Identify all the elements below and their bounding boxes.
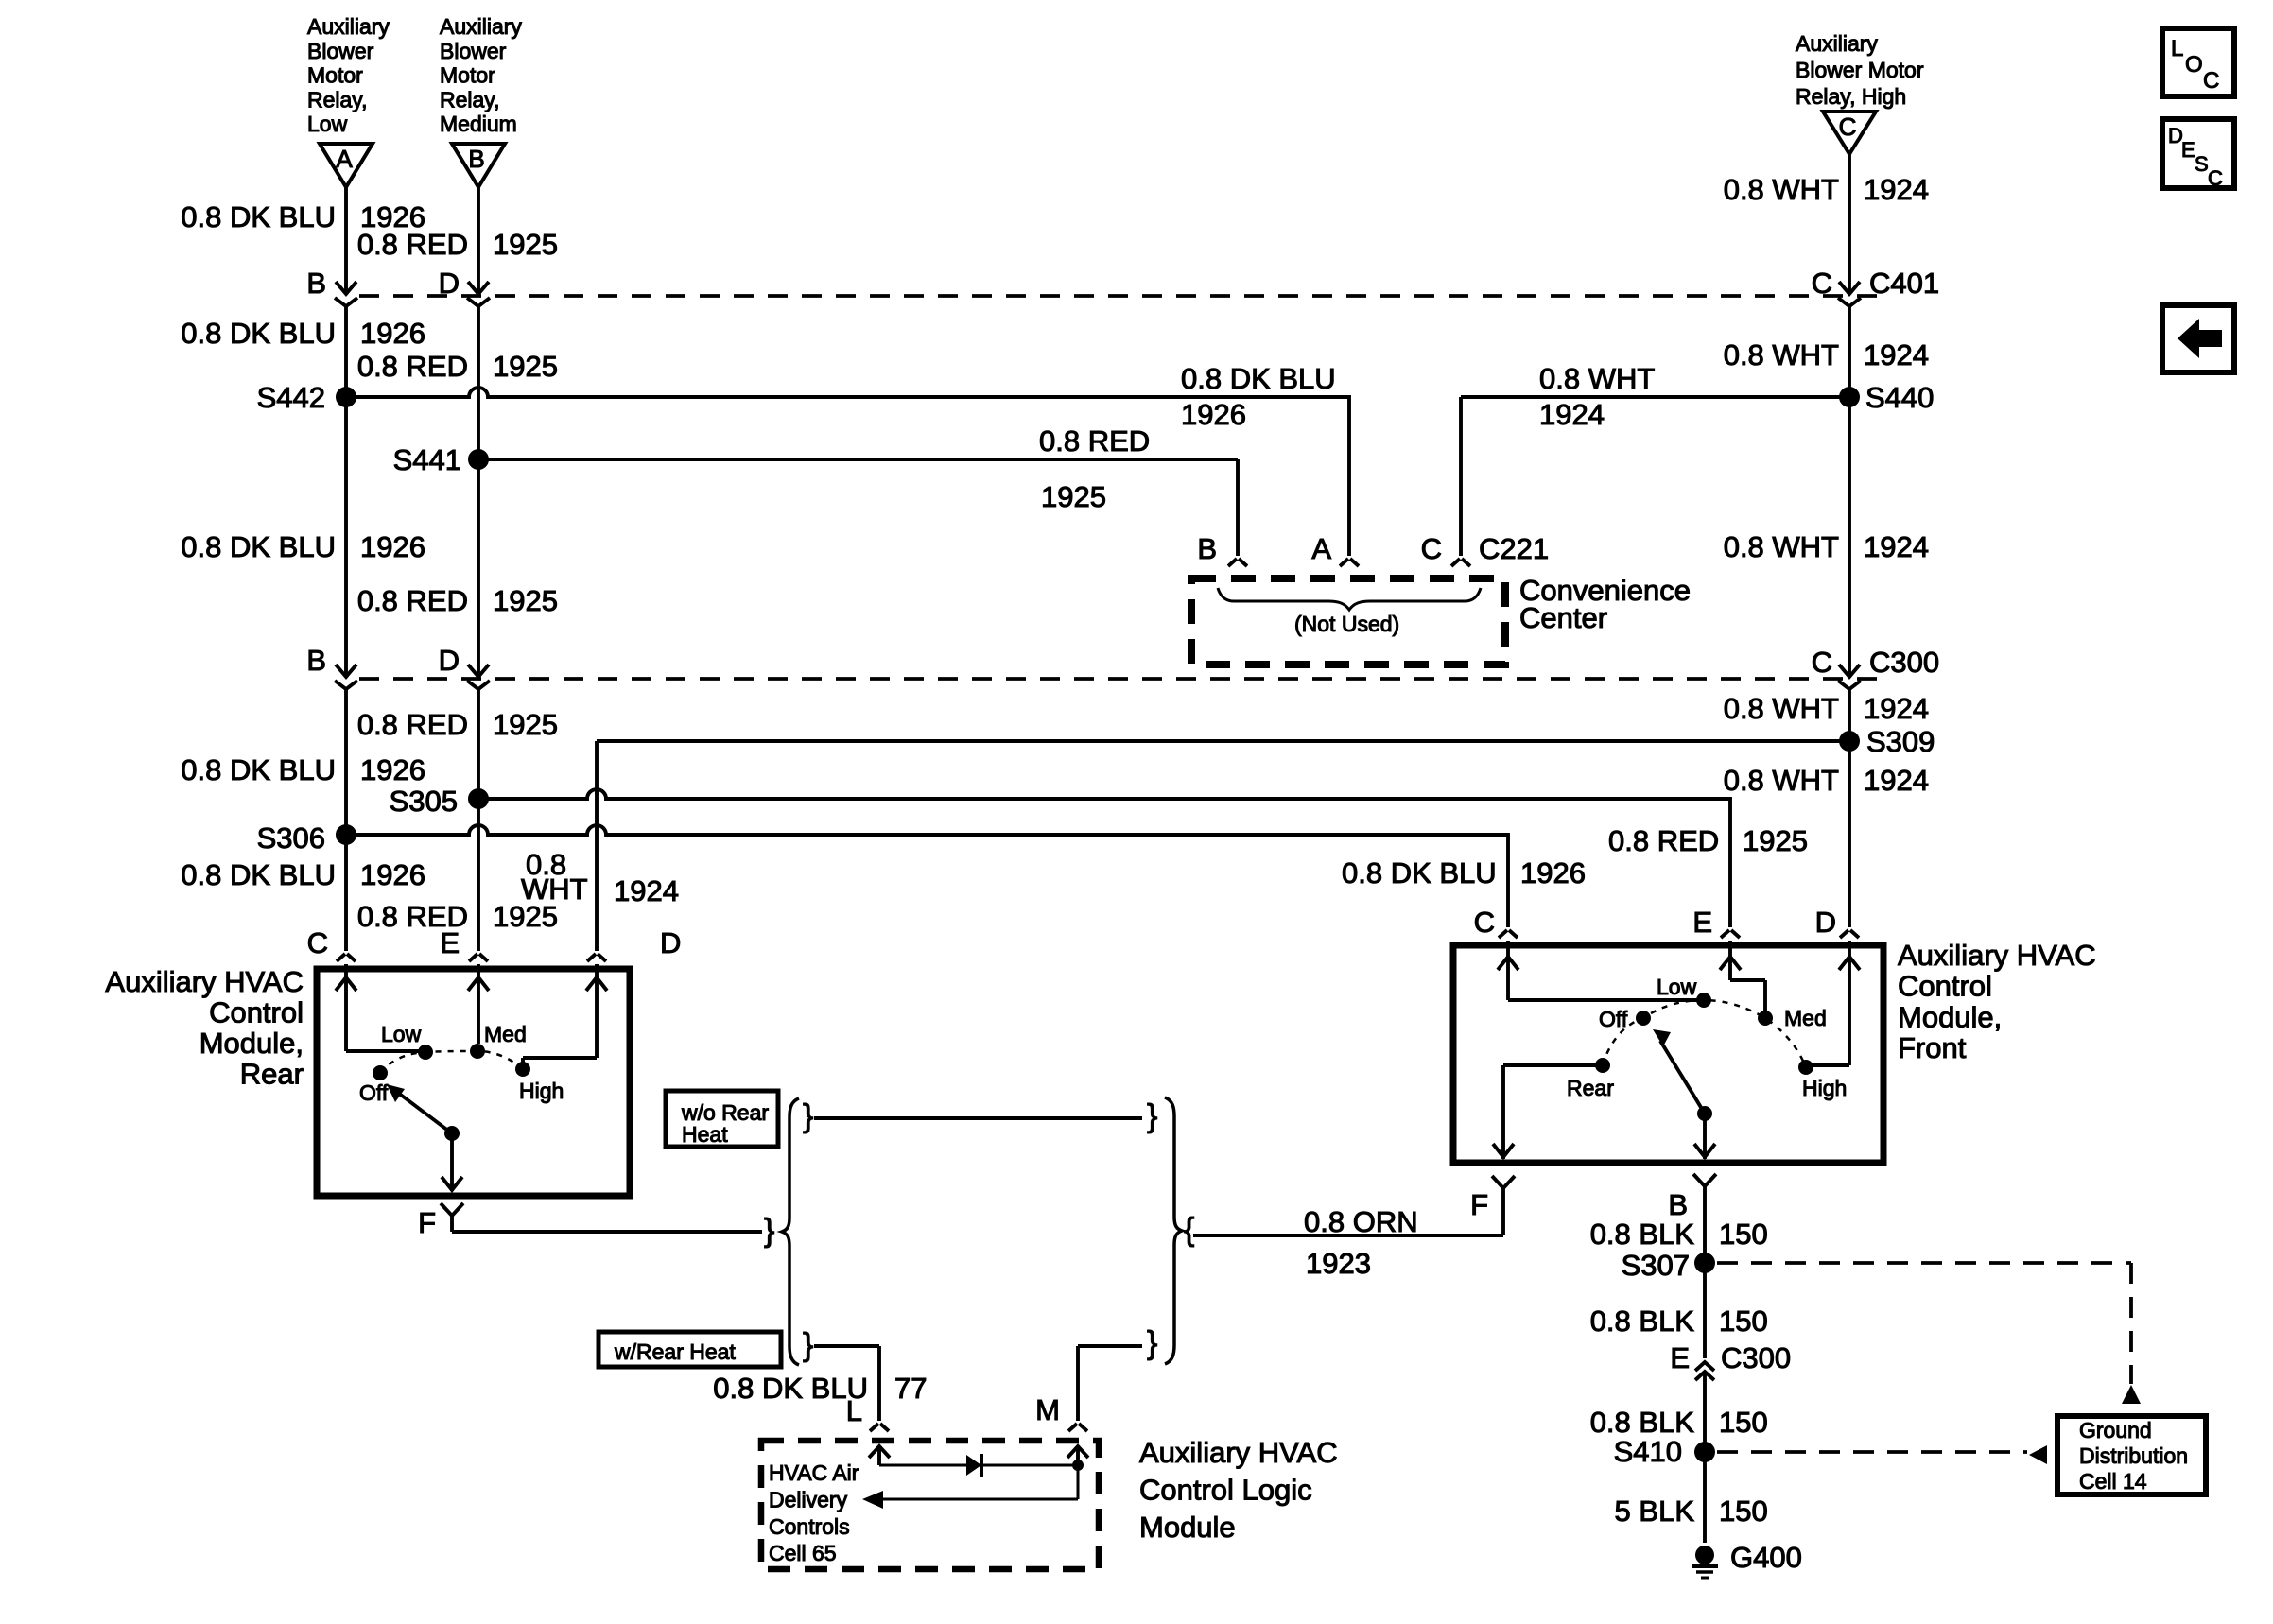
svg-text:Distribution: Distribution: [2079, 1443, 2188, 1468]
svg-text:0.8 WHT: 0.8 WHT: [1724, 530, 1839, 563]
svg-text:Low: Low: [1657, 975, 1697, 999]
svg-text:Auxiliary HVAC: Auxiliary HVAC: [1898, 939, 2096, 972]
svg-text:Auxiliary HVAC: Auxiliary HVAC: [105, 965, 304, 998]
svg-text:{: {: [1184, 1212, 1194, 1248]
svg-text:1926: 1926: [360, 317, 425, 350]
svg-text:0.8 DK BLU: 0.8 DK BLU: [181, 753, 336, 786]
svg-text:C: C: [1839, 112, 1857, 141]
svg-text:F: F: [418, 1206, 436, 1239]
svg-text:Control: Control: [209, 996, 304, 1029]
svg-text:0.8 BLK: 0.8 BLK: [1590, 1304, 1695, 1338]
svg-text:1924: 1924: [1864, 530, 1929, 563]
svg-text:0.8 WHT: 0.8 WHT: [1724, 338, 1839, 371]
svg-text:S307: S307: [1622, 1249, 1690, 1282]
svg-text:1924: 1924: [1864, 173, 1929, 206]
svg-text:F: F: [1470, 1188, 1488, 1221]
svg-text:1924: 1924: [1864, 338, 1929, 371]
svg-text:0.8 WHT: 0.8 WHT: [1724, 692, 1839, 725]
svg-text:1926: 1926: [1520, 856, 1586, 890]
svg-text:77: 77: [894, 1372, 927, 1405]
svg-text:S305: S305: [390, 785, 458, 818]
svg-text:M: M: [1035, 1393, 1060, 1426]
svg-text:}: }: [1147, 1325, 1157, 1361]
svg-text:1923: 1923: [1306, 1247, 1371, 1280]
svg-text:Cell 65: Cell 65: [769, 1541, 837, 1565]
svg-text:C: C: [1812, 646, 1832, 679]
svg-text:0.8 DK BLU: 0.8 DK BLU: [181, 858, 336, 891]
svg-text:Medium: Medium: [440, 112, 517, 136]
svg-text:0.8 DK BLU: 0.8 DK BLU: [1181, 362, 1336, 395]
svg-text:Blower Motor: Blower Motor: [1796, 58, 1924, 82]
svg-text:S410: S410: [1614, 1435, 1682, 1468]
svg-text:0.8 RED: 0.8 RED: [357, 350, 468, 383]
svg-text:1924: 1924: [614, 874, 679, 907]
svg-text:Blower: Blower: [440, 39, 507, 63]
svg-text:1925: 1925: [1743, 824, 1808, 857]
svg-text:0.8 DK BLU: 0.8 DK BLU: [1342, 856, 1497, 890]
svg-text:High: High: [1802, 1076, 1847, 1100]
svg-text:C300: C300: [1869, 646, 1939, 679]
svg-text:150: 150: [1719, 1218, 1768, 1251]
svg-text:Low: Low: [381, 1022, 422, 1046]
svg-text:S441: S441: [393, 443, 461, 476]
svg-text:1925: 1925: [493, 350, 558, 383]
svg-text:}: }: [764, 1213, 774, 1249]
svg-text:C: C: [2203, 68, 2219, 94]
svg-text:1925: 1925: [493, 708, 558, 741]
svg-text:C: C: [307, 926, 328, 959]
svg-text:C401: C401: [1869, 267, 1939, 300]
svg-text:E: E: [1692, 906, 1712, 939]
svg-text:O: O: [2185, 52, 2203, 78]
svg-text:Motor: Motor: [307, 63, 363, 88]
svg-text:0.8 RED: 0.8 RED: [357, 900, 468, 933]
svg-text:S306: S306: [257, 821, 325, 855]
svg-text:5 BLK: 5 BLK: [1615, 1494, 1695, 1528]
svg-text:Auxiliary: Auxiliary: [440, 14, 522, 39]
svg-text:0.8 WHT: 0.8 WHT: [1539, 362, 1655, 395]
svg-text:Ground: Ground: [2079, 1418, 2152, 1443]
svg-text:C221: C221: [1479, 532, 1549, 565]
svg-text:A: A: [336, 145, 353, 173]
svg-text:C: C: [1474, 906, 1495, 939]
svg-text:0.8 BLK: 0.8 BLK: [1590, 1406, 1695, 1439]
svg-text:0.8 ORN: 0.8 ORN: [1304, 1205, 1418, 1238]
svg-text:0.8 DK BLU: 0.8 DK BLU: [181, 200, 336, 233]
svg-text:}: }: [803, 1327, 813, 1363]
svg-text:S309: S309: [1866, 725, 1935, 758]
svg-text:C: C: [1421, 532, 1442, 565]
svg-text:S440: S440: [1865, 381, 1934, 414]
svg-text:Relay,: Relay,: [440, 87, 500, 112]
svg-text:D: D: [439, 644, 460, 677]
svg-text:Med: Med: [484, 1022, 527, 1046]
svg-text:Control Logic: Control Logic: [1139, 1474, 1312, 1507]
svg-text:Motor: Motor: [440, 63, 495, 88]
svg-text:Module,: Module,: [1898, 1000, 2002, 1033]
svg-text:Auxiliary: Auxiliary: [1796, 31, 1878, 56]
svg-text:0.8 WHT: 0.8 WHT: [1724, 764, 1839, 797]
svg-text:Relay, High: Relay, High: [1796, 84, 1906, 109]
svg-text:B: B: [306, 644, 326, 677]
svg-text:}: }: [803, 1098, 813, 1134]
svg-text:Control: Control: [1898, 970, 1992, 1003]
svg-text:C300: C300: [1721, 1341, 1791, 1374]
svg-text:0.8 RED: 0.8 RED: [357, 708, 468, 741]
svg-text:C: C: [1812, 267, 1832, 300]
svg-text:1925: 1925: [493, 228, 558, 261]
svg-text:0.8 DK BLU: 0.8 DK BLU: [713, 1372, 868, 1405]
svg-text:Center: Center: [1519, 601, 1607, 634]
svg-text:0.8 RED: 0.8 RED: [1039, 424, 1150, 458]
svg-text:C: C: [2208, 166, 2223, 190]
svg-text:0.8 BLK: 0.8 BLK: [1590, 1218, 1695, 1251]
svg-text:Rear: Rear: [240, 1058, 304, 1091]
svg-text:WHT: WHT: [521, 872, 588, 906]
svg-text:0.8 WHT: 0.8 WHT: [1724, 173, 1839, 206]
svg-text:E: E: [2181, 138, 2195, 162]
svg-text:Cell 14: Cell 14: [2079, 1469, 2147, 1494]
svg-text:0.8 RED: 0.8 RED: [357, 228, 468, 261]
svg-text:D: D: [439, 267, 460, 300]
svg-text:G400: G400: [1730, 1541, 1802, 1574]
svg-text:Rear: Rear: [1567, 1076, 1614, 1100]
svg-text:0.8 RED: 0.8 RED: [357, 584, 468, 617]
svg-text:1925: 1925: [493, 584, 558, 617]
svg-text:Module,: Module,: [200, 1027, 304, 1060]
svg-text:1924: 1924: [1539, 398, 1605, 431]
svg-text:B: B: [306, 267, 326, 300]
svg-text:L: L: [846, 1394, 862, 1427]
svg-text:1926: 1926: [360, 858, 425, 891]
svg-text:w/Rear Heat: w/Rear Heat: [614, 1339, 736, 1364]
svg-text:(Not Used): (Not Used): [1294, 612, 1399, 636]
svg-text:Blower: Blower: [307, 39, 374, 63]
svg-text:0.8 DK BLU: 0.8 DK BLU: [181, 317, 336, 350]
svg-text:150: 150: [1719, 1494, 1768, 1528]
svg-text:Low: Low: [307, 112, 348, 136]
svg-text:0.8 DK BLU: 0.8 DK BLU: [181, 530, 336, 563]
svg-text:Auxiliary: Auxiliary: [307, 14, 390, 39]
svg-text:Off: Off: [1599, 1007, 1628, 1031]
svg-text:B: B: [1668, 1188, 1688, 1221]
svg-text:E: E: [1670, 1341, 1690, 1374]
svg-text:HVAC Air: HVAC Air: [769, 1460, 859, 1485]
svg-text:Off: Off: [359, 1080, 389, 1105]
svg-text:Front: Front: [1898, 1031, 1967, 1064]
svg-text:Auxiliary HVAC: Auxiliary HVAC: [1139, 1436, 1338, 1469]
svg-text:1926: 1926: [1181, 398, 1246, 431]
svg-text:Relay,: Relay,: [307, 87, 368, 112]
svg-text:1924: 1924: [1864, 692, 1929, 725]
svg-text:Delivery: Delivery: [769, 1487, 848, 1512]
svg-text:Heat: Heat: [682, 1122, 728, 1147]
svg-text:Med: Med: [1784, 1006, 1827, 1030]
svg-text:S442: S442: [257, 381, 325, 414]
svg-text:Controls: Controls: [769, 1514, 850, 1539]
svg-text:D: D: [1815, 906, 1836, 939]
svg-text:High: High: [519, 1079, 564, 1103]
svg-text:150: 150: [1719, 1304, 1768, 1338]
svg-text:Module: Module: [1139, 1511, 1236, 1544]
svg-text:1926: 1926: [360, 530, 425, 563]
svg-text:1926: 1926: [360, 753, 425, 786]
svg-text:0.8 RED: 0.8 RED: [1608, 824, 1719, 857]
svg-text:L: L: [2171, 36, 2183, 61]
svg-text:S: S: [2195, 152, 2209, 176]
svg-text:}: }: [1147, 1098, 1157, 1134]
svg-text:1925: 1925: [1041, 480, 1106, 513]
svg-text:D: D: [660, 926, 681, 959]
svg-text:A: A: [1311, 532, 1331, 565]
svg-text:150: 150: [1719, 1406, 1768, 1439]
svg-text:B: B: [1197, 532, 1217, 565]
svg-text:1924: 1924: [1864, 764, 1929, 797]
svg-text:B: B: [468, 145, 484, 173]
